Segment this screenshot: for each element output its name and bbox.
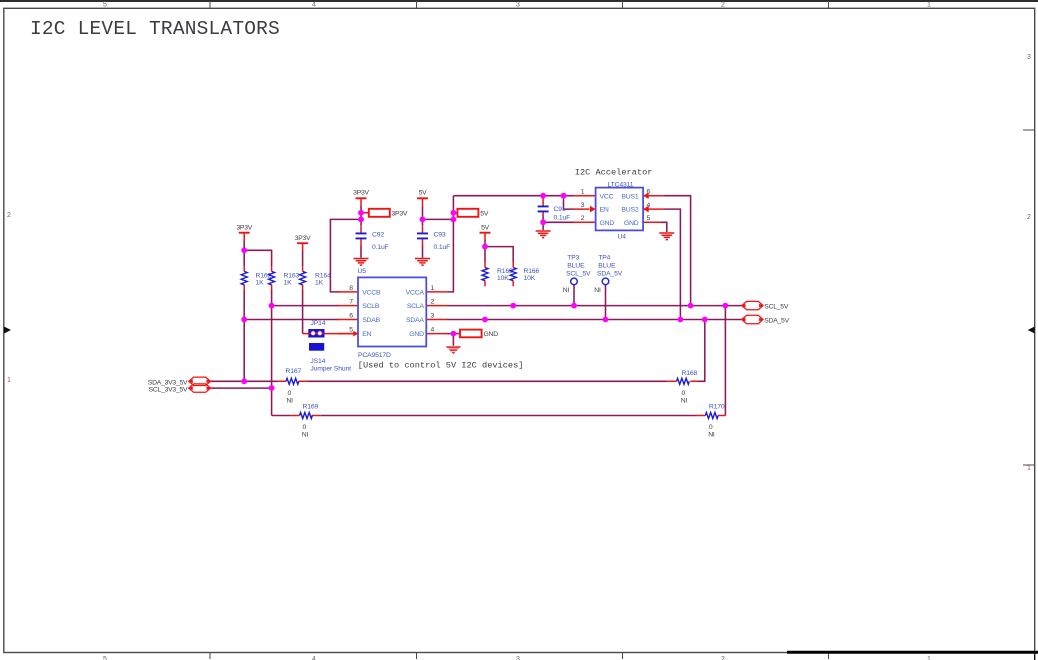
svg-text:0.1uF: 0.1uF (434, 244, 451, 251)
svg-text:1: 1 (927, 656, 931, 660)
U4 BUS2 arrow (643, 206, 649, 213)
svg-text:NI: NI (302, 431, 309, 438)
resistor R167 (286, 368, 302, 405)
U4 pin names left (600, 193, 615, 227)
offpage connector SDA_5V (741, 315, 789, 324)
wire net 3P3V top to U5 VCCB and C92 (330, 206, 361, 292)
svg-text:GND: GND (600, 220, 615, 227)
resistor R165 (482, 268, 513, 283)
svg-text:GND: GND (409, 331, 424, 338)
wire R164 to JP14 EN (302, 251, 304, 334)
node GND junctions (451, 219, 546, 336)
svg-text:3P3V: 3P3V (392, 210, 408, 217)
svg-text:1: 1 (7, 377, 11, 384)
svg-text:SCL_5V: SCL_5V (764, 303, 789, 310)
wire net 5V pullup feeds R165 R166 (485, 240, 513, 262)
ground signal U5 GND (446, 346, 461, 354)
resistor R170 (705, 404, 725, 439)
svg-text:1K: 1K (284, 279, 293, 286)
node SDA_3V3_5V junction (241, 378, 247, 384)
wire net 3P3V pullup feeds R162 R163 (244, 241, 271, 267)
ground earth U4 pin5 (659, 233, 674, 240)
svg-text:VCC: VCC (600, 193, 614, 200)
jumper shunt JS14 (309, 343, 351, 372)
wire BUS2 to SDA_5V (665, 209, 681, 319)
svg-text:BUS2: BUS2 (621, 207, 638, 214)
node SCL_3V3_5V junction (269, 385, 275, 391)
U5 pin names left (362, 290, 381, 339)
wire SDA right bus (447, 319, 742, 321)
svg-text:R169: R169 (303, 404, 319, 411)
U4 pin numbers right 6 4 5 (647, 189, 651, 223)
node U4 VCC junctions (540, 193, 566, 199)
svg-text:JS14: JS14 (310, 358, 325, 365)
svg-text:BLUE: BLUE (598, 262, 616, 269)
wire net 5V top to U4 VCC and U5 VCCA (423, 196, 574, 292)
svg-text:1: 1 (927, 2, 931, 9)
svg-text:1: 1 (431, 285, 435, 292)
wire SDA_3V3_5V row (211, 320, 705, 382)
svg-text:SCL_3V3_5V: SCL_3V3_5V (149, 387, 188, 394)
test point TP4 (594, 255, 622, 294)
power symbol 5V (C93) (417, 190, 428, 199)
svg-text:0.1uF: 0.1uF (554, 215, 571, 222)
red pin stubs U5 (338, 292, 448, 334)
svg-text:GND: GND (624, 220, 639, 227)
node SDA_5V junctions (241, 317, 707, 323)
power tap box GND (460, 330, 498, 339)
svg-text:5V: 5V (480, 210, 489, 217)
svg-text:1: 1 (1027, 465, 1031, 472)
svg-text:10K: 10K (497, 275, 509, 282)
svg-text:10K: 10K (524, 275, 536, 282)
svg-text:SCL_5V: SCL_5V (566, 270, 591, 277)
svg-text:SDAB: SDAB (362, 317, 380, 324)
ground earth C92 (354, 259, 369, 266)
offpage connector SCL_5V (741, 301, 789, 310)
svg-text:I2C LEVEL TRANSLATORS: I2C LEVEL TRANSLATORS (30, 18, 280, 40)
U5 pin numbers right 1 2 3 4 (431, 285, 435, 334)
svg-text:C92: C92 (372, 232, 384, 239)
node 5V pullup junction (482, 244, 488, 250)
svg-text:SDA_5V: SDA_5V (597, 270, 623, 277)
svg-text:R170: R170 (709, 404, 725, 411)
svg-text:5: 5 (103, 2, 107, 9)
svg-text:5: 5 (349, 327, 353, 334)
svg-text:0: 0 (288, 390, 292, 397)
svg-text:R168: R168 (682, 370, 698, 377)
svg-text:0: 0 (709, 424, 713, 431)
red pin stubs horizontal resistors (279, 381, 726, 415)
svg-text:EN: EN (362, 331, 371, 338)
wire BUS1 to SCL_5V (665, 196, 691, 306)
svg-text:4: 4 (312, 2, 316, 9)
svg-text:4: 4 (431, 327, 435, 334)
resistor R162 (241, 271, 271, 286)
svg-text:6: 6 (349, 312, 353, 319)
svg-text:2: 2 (431, 299, 435, 306)
svg-text:2: 2 (581, 215, 585, 222)
svg-text:SCLA: SCLA (407, 303, 425, 310)
svg-text:C91: C91 (554, 206, 566, 213)
wire SDA left segment (244, 290, 339, 381)
svg-text:3: 3 (516, 656, 520, 660)
svg-text:1: 1 (581, 189, 585, 196)
svg-text:NI: NI (563, 287, 570, 294)
svg-text:5: 5 (647, 215, 651, 222)
svg-text:3: 3 (516, 2, 520, 9)
resistor R163 (269, 271, 300, 286)
wire SCL_3V3_5V row (211, 387, 272, 389)
svg-text:0.1uF: 0.1uF (372, 244, 389, 251)
svg-text:7: 7 (349, 299, 353, 306)
wire SCL right bus (447, 305, 742, 307)
wire TP3 drop (573, 285, 575, 306)
power symbol 3P3V (C92) (353, 190, 369, 199)
svg-text:SCLB: SCLB (362, 303, 380, 310)
wire SCL left segment (272, 290, 339, 416)
resistor R166 (510, 268, 539, 283)
svg-text:NI: NI (708, 431, 715, 438)
test point TP3 (563, 255, 591, 294)
svg-text:[Used to control 5V I2C device: [Used to control 5V I2C devices] (358, 361, 524, 371)
U5 pin names right (406, 290, 425, 339)
svg-text:EN: EN (600, 207, 609, 214)
svg-text:JP14: JP14 (311, 320, 326, 327)
wire U4 EN tie to VCC (564, 196, 574, 209)
U4 pin names right (621, 193, 638, 227)
power symbol 5V (R165) (480, 224, 491, 232)
svg-text:3: 3 (1027, 54, 1031, 61)
svg-text:PCA9517D: PCA9517D (358, 352, 391, 359)
red wire JP14 to U5 EN (303, 333, 358, 335)
ground earth C91 (536, 231, 551, 238)
svg-text:C93: C93 (434, 232, 446, 239)
node SCL_5V junctions (269, 303, 729, 309)
svg-text:0: 0 (303, 424, 307, 431)
svg-text:TP4: TP4 (598, 255, 610, 262)
offpage connector SDA_3V3_5V (148, 377, 211, 387)
svg-text:3: 3 (581, 202, 585, 209)
wire C91 to GND rail of U4 (543, 216, 573, 231)
wire R169 R170 row (272, 306, 726, 416)
red pin stubs capacitors (361, 197, 543, 247)
wire U4 GND pin5 to ground (661, 222, 667, 232)
svg-text:2: 2 (7, 212, 11, 219)
ground earth C93 (415, 259, 430, 266)
power tap box 5V (457, 209, 488, 218)
svg-text:1K: 1K (256, 279, 265, 286)
svg-text:1K: 1K (315, 279, 324, 286)
node 3P3V pullup junction (241, 247, 247, 253)
svg-text:3P3V: 3P3V (236, 224, 252, 231)
svg-text:5V: 5V (419, 190, 428, 197)
svg-text:NI: NI (594, 287, 601, 294)
svg-text:3P3V: 3P3V (353, 190, 369, 197)
capacitor C92 (356, 232, 389, 251)
svg-text:BLUE: BLUE (567, 262, 585, 269)
resistor R169 (300, 404, 319, 439)
red pin stubs vertical resistors (244, 262, 513, 291)
jumper JP14 (309, 320, 326, 337)
offpage connector SCL_3V3_5V (149, 384, 211, 394)
svg-text:NI: NI (681, 397, 688, 404)
op-amp U4 LTC4311 body (596, 182, 644, 241)
resistor R168 (677, 370, 698, 404)
svg-text:5V: 5V (481, 224, 490, 231)
power tap box 3P3V (369, 209, 408, 218)
red pin stubs U4 (574, 196, 665, 223)
svg-text:5: 5 (103, 656, 107, 660)
svg-text:4: 4 (312, 656, 316, 660)
power symbol 3P3V (R162) (236, 224, 252, 232)
red taps to power boxes (361, 213, 460, 334)
svg-text:8: 8 (349, 285, 353, 292)
svg-text:BUS1: BUS1 (621, 193, 638, 200)
U4 pin numbers left 1 3 2 (581, 189, 585, 223)
svg-text:NI: NI (287, 397, 294, 404)
capacitor C93 (417, 232, 450, 251)
svg-text:GND: GND (484, 331, 499, 338)
node 5V tap junctions (420, 210, 457, 222)
svg-text:R167: R167 (286, 368, 302, 375)
svg-text:3: 3 (431, 312, 435, 319)
red pin stubs power symbols (244, 198, 485, 251)
svg-text:3P3V: 3P3V (295, 235, 311, 242)
svg-text:I2C Accelerator: I2C Accelerator (575, 168, 653, 178)
svg-text:VCCB: VCCB (362, 290, 381, 297)
svg-text:2: 2 (721, 2, 725, 9)
power symbol 3P3V (R164) (295, 235, 311, 243)
svg-text:Jumper Shunt: Jumper Shunt (310, 365, 351, 372)
wire U5 GND pin4 to gnd tap (447, 334, 453, 346)
node 3P3V tap junctions (358, 210, 364, 222)
svg-text:U4: U4 (618, 233, 627, 240)
svg-text:2: 2 (1027, 214, 1031, 221)
resistor R164 (300, 271, 331, 286)
svg-text:VCCA: VCCA (406, 290, 425, 297)
svg-text:U5: U5 (358, 268, 367, 275)
svg-text:SDA_5V: SDA_5V (764, 317, 789, 324)
svg-text:LTC4311: LTC4311 (608, 182, 634, 189)
U5 EN input arrow (353, 331, 358, 337)
capacitor C91 (538, 206, 571, 221)
svg-text:2: 2 (721, 656, 725, 660)
wire TP4 drop (605, 285, 607, 320)
svg-text:SDAA: SDAA (406, 317, 424, 324)
svg-text:TP3: TP3 (567, 255, 579, 262)
U4 BUS1 arrow (643, 192, 649, 199)
U5 pin numbers left 8 7 6 5 (349, 285, 353, 334)
op-amp U5 PCA9517D body (358, 268, 427, 359)
svg-text:0: 0 (682, 390, 686, 397)
U4 EN input arrow (590, 206, 596, 213)
